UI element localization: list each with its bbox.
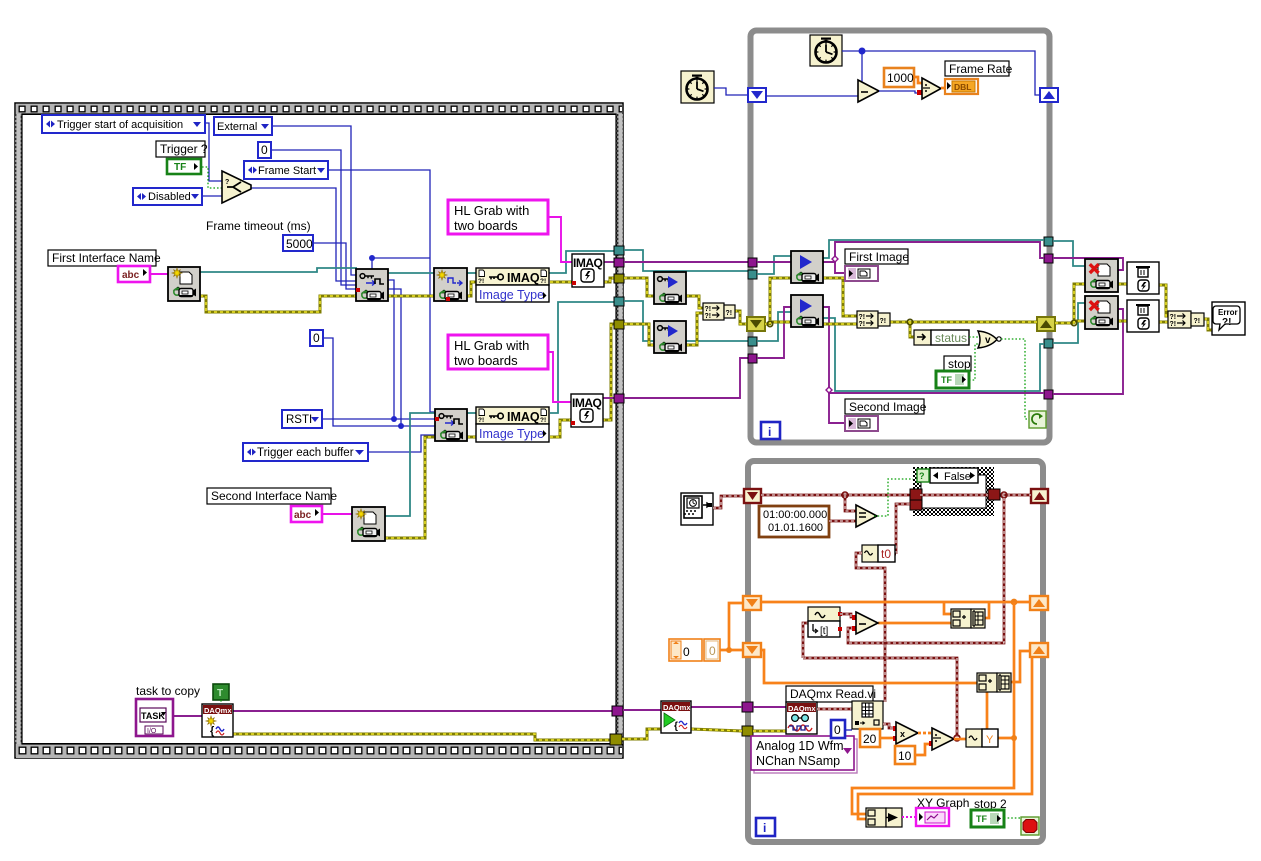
wire stop TF to or [969, 344, 979, 380]
indicator Second Image [845, 416, 878, 431]
select function [222, 171, 251, 203]
shift register orange B right [1030, 643, 1048, 657]
svg-text:Frame Start: Frame Start [258, 165, 316, 177]
IMAQ Init icon 2 [352, 507, 385, 541]
bundle xy node [866, 808, 902, 827]
wire error outside [622, 729, 661, 739]
boolean stop TF [936, 371, 969, 388]
wire error trash2 to merge3 [1159, 321, 1168, 324]
IMAQ Configure Trigger icon [356, 269, 388, 301]
svg-text:Second Image: Second Image [849, 400, 927, 414]
node junction dot [369, 255, 375, 261]
IMAQ read icon 2 [791, 295, 823, 327]
svg-text:i: i [768, 425, 771, 439]
svg-text:Frame timeout (ms): Frame timeout (ms) [206, 219, 311, 233]
DAQmx start task icon [661, 701, 691, 733]
wire purple image2 to icon2 [757, 307, 791, 358]
svg-text:?!: ?! [1170, 321, 1177, 328]
svg-text:20: 20 [863, 732, 877, 746]
svg-text:I/O: I/O [147, 728, 157, 735]
loop2 iteration terminal [756, 818, 775, 836]
svg-text:abc: abc [122, 270, 140, 281]
svg-text:01.01.1600: 01.01.1600 [768, 522, 823, 534]
unbundle t0 node [862, 545, 895, 562]
svg-text:DAQmx: DAQmx [204, 706, 232, 715]
numeric constant 20 [860, 729, 880, 747]
wire timestamp trunk [761, 494, 911, 497]
svg-text:TF: TF [174, 162, 186, 173]
timestamp constant [759, 506, 829, 537]
label Second Interface Name [207, 488, 337, 504]
wire 0 constant to config node [271, 150, 357, 285]
equals function [856, 505, 877, 527]
wire IMAQ session teal row2 [385, 413, 435, 516]
label Frame Rate [945, 61, 1013, 76]
svg-text:IMAQ: IMAQ [507, 410, 540, 424]
loop2 stop terminal [1021, 817, 1039, 835]
wire clock to left shift register [714, 88, 748, 95]
wire orange trunk A [761, 601, 1030, 604]
wire error close2 to trash2 [1118, 320, 1127, 323]
boolean T constant green [213, 684, 229, 704]
tunnel case right [988, 489, 1000, 500]
string constant abc 1 [118, 266, 150, 282]
wire error close1 to trash1 [1118, 283, 1127, 286]
case structure [910, 467, 1000, 516]
shift register orange A right [1030, 596, 1048, 610]
wire RSTI ring to junction [322, 418, 394, 420]
svg-text:i: i [763, 821, 766, 835]
label DAQmx Read.vi [786, 686, 876, 702]
wire divide to DBL indicator [941, 87, 947, 90]
string constant HL Grab with two boards 1 [448, 200, 548, 234]
divide function loop2 [932, 728, 954, 750]
TASK constant [136, 699, 173, 736]
svg-text:?!: ?! [705, 313, 712, 320]
svg-text:DAQmx: DAQmx [788, 704, 816, 713]
tunnel teal 1 [614, 246, 624, 255]
tunnel purple loop1 right bottom [1044, 390, 1053, 399]
wire HL Grab string 2 to IMAQ create 2 [548, 352, 571, 402]
wire bundle to xy graph magenta [902, 816, 916, 818]
svg-text:Error: Error [1218, 308, 1238, 317]
svg-text:abc: abc [294, 510, 312, 521]
wire multiply to divide [918, 732, 932, 735]
wire orange trunk B [761, 650, 977, 683]
wire teal to read icon 1 [757, 256, 791, 274]
IMAQ close icon 1 [1085, 259, 1118, 292]
tunnel teal loop1 right top [1044, 237, 1053, 246]
numeric constant 10 [895, 746, 915, 764]
wire string abc1 to IMAQ init [150, 273, 168, 275]
svg-text:x: x [900, 729, 905, 739]
DAQmx create task icon [202, 704, 233, 737]
wire long orange down to xy bundle [852, 602, 1014, 814]
wire subtract to divide [879, 91, 922, 93]
svg-text:DAQmx: DAQmx [663, 703, 691, 712]
svg-text:?!: ?! [478, 278, 484, 285]
svg-text:?!: ?! [478, 417, 484, 424]
wire waveform y component path [803, 658, 957, 737]
flat sequence structure frame [15, 103, 623, 758]
tunnel purple task [612, 706, 623, 716]
wire DAQmx task purple out [233, 710, 612, 712]
svg-text:TF: TF [941, 375, 952, 385]
svg-text:HL Grab with: HL Grab with [454, 203, 529, 218]
wire read to index array dark red [817, 708, 852, 711]
property node IMAQ Image Type row2 [476, 407, 549, 442]
wire purple task into read [753, 706, 786, 708]
loop1 iteration terminal [761, 422, 780, 439]
wire 0 constant second [322, 338, 401, 426]
get waveform components icon [808, 607, 842, 637]
wire error to start icon A [624, 278, 654, 296]
svg-text:?!: ?! [1170, 314, 1177, 321]
svg-text:?!: ?! [540, 417, 546, 424]
IMAQ start icon B [654, 321, 686, 353]
wire merge3 to error dialog [1204, 319, 1212, 330]
indicator First Image [845, 266, 878, 281]
svg-text:{: { [674, 721, 678, 732]
svg-text:stop: stop [948, 357, 971, 371]
svg-text:Trigger ?: Trigger ? [160, 142, 208, 156]
svg-text:?!: ?! [1222, 317, 1231, 328]
wire error read1 to merge2 [823, 278, 857, 316]
wire Frame Start enum long drop to both config nodes [328, 170, 435, 412]
svg-text:T: T [217, 688, 223, 699]
wire 1000 to divide [914, 77, 922, 83]
svg-text:IMAQ: IMAQ [573, 256, 602, 270]
string constant HL Grab with two boards 2 [448, 335, 548, 369]
index array icon [852, 701, 883, 729]
wire error to start icon B [624, 324, 654, 345]
tunnel purple 2 [614, 394, 624, 403]
wire orange branch to build array 1 [944, 602, 951, 614]
wire 20 to multiply [880, 737, 896, 740]
svg-text:task to copy: task to copy [136, 684, 200, 698]
svg-text:Y: Y [986, 734, 994, 746]
svg-text:0: 0 [261, 143, 268, 157]
wire teal read1 out to right tunnel [823, 240, 1044, 258]
svg-text:Trigger each buffer: Trigger each buffer [257, 447, 354, 459]
IMAQ Init icon [168, 267, 200, 301]
wire select output to config node [250, 188, 357, 281]
wire error into read [753, 730, 786, 733]
wire error trash1 down to merge3 [1159, 285, 1168, 316]
wire stop2 to stop terminal [1004, 818, 1023, 824]
loop condition continue [1029, 411, 1046, 428]
wire t0 up to case tunnel 2 [896, 504, 910, 554]
wire error read2 to merge2 [823, 323, 857, 326]
build waveform Y icon [966, 729, 998, 747]
wire inside case [920, 494, 988, 497]
camera config icon row2 [435, 409, 467, 441]
svg-text:{: { [210, 725, 215, 737]
svg-text:DBL: DBL [954, 82, 971, 92]
svg-text:0: 0 [834, 723, 841, 737]
svg-text:status: status [935, 331, 967, 345]
svg-text:?!: ?! [859, 314, 866, 321]
wire 5000 to config node [313, 243, 357, 289]
while loop 1 (top right) [751, 31, 1050, 443]
shift register orange A left [743, 596, 761, 610]
wire build2 out [1011, 651, 1030, 682]
tunnel purple loop1 left bottom [748, 354, 757, 363]
enum Trigger each buffer [243, 443, 368, 461]
wire error merge2 to right SR [890, 321, 1037, 324]
tunnel teal loop1 left bottom [748, 337, 757, 346]
svg-text:?!: ?! [726, 310, 733, 317]
tunnel olive 1 [614, 274, 624, 283]
svg-text:v: v [985, 335, 991, 346]
enum Frame Start [244, 161, 328, 179]
wire shift reg to subtract [766, 95, 858, 97]
svg-text:1000: 1000 [887, 71, 914, 85]
wire config1 outputs down to config2 [388, 280, 394, 419]
svg-text:t0: t0 [881, 547, 891, 561]
numeric constant 1000 [884, 68, 914, 87]
numeric constant 0 second [310, 330, 323, 346]
tunnel olive 2 [614, 320, 624, 329]
wire error cluster row2 [385, 437, 435, 538]
property node IMAQ Image Type row1 [476, 268, 549, 302]
tunnel case left 1 [910, 489, 922, 500]
wire waveform vertical trunk [856, 553, 885, 702]
tunnel purple loop1 left top [748, 258, 757, 267]
tunnel teal 2 [614, 297, 624, 306]
wire purple image 1 [624, 261, 748, 263]
svg-text:Image Type: Image Type [479, 427, 544, 441]
wire purple task outside [623, 709, 661, 711]
boolean stop 2 TF [971, 810, 1004, 827]
svg-text:Frame Rate: Frame Rate [949, 62, 1013, 76]
tunnel case left 2 [910, 500, 922, 510]
svg-text:[t]: [t] [820, 626, 829, 637]
svg-text:?!: ?! [705, 306, 712, 313]
wire divide to build waveform [954, 738, 966, 741]
wire 0 to index array [845, 729, 852, 731]
wire case out down to subtract region [848, 498, 1004, 643]
IMAQ close icon 2 [1085, 296, 1118, 329]
wire error iconA to merge [686, 296, 703, 308]
wire DAQmx error out [233, 734, 612, 740]
svg-text:two boards: two boards [454, 353, 518, 368]
svg-text:?!: ?! [859, 321, 866, 328]
numeric constant 0 blue loop2 [831, 720, 845, 738]
IMAQ Create icon 1 [572, 254, 604, 287]
svg-text:NChan NSamp: NChan NSamp [756, 754, 840, 768]
merge errors node 1 [703, 303, 735, 320]
purple tunnel loop2 [742, 702, 753, 712]
wire wfm to subtract top [840, 614, 856, 617]
svg-text:IMAQ: IMAQ [507, 271, 540, 285]
svg-text:Analog 1D Wfm: Analog 1D Wfm [756, 739, 844, 753]
svg-text:Second Interface Name: Second Interface Name [211, 489, 337, 503]
wire HL Grab string 1 to IMAQ create [548, 217, 572, 262]
orange array constant 0 [669, 639, 720, 661]
wire datetime to left SR [713, 496, 745, 508]
tunnel olive task [610, 734, 622, 745]
wire waveform Y up [982, 686, 987, 729]
svg-text:HL Grab with: HL Grab with [454, 338, 529, 353]
svg-text:False: False [944, 471, 971, 483]
wire build2 to xy bundle second [858, 657, 1032, 819]
ring External [214, 117, 272, 135]
wire trigger each buffer enum [368, 435, 435, 452]
merge errors node 2 [857, 311, 890, 328]
label Trigger ? [156, 141, 208, 157]
IMAQ start icon A [654, 272, 686, 304]
or gate [978, 331, 1001, 348]
svg-text:Disabled: Disabled [148, 191, 191, 203]
shift register timestamp right [1031, 489, 1048, 503]
wire teal read2 out to right tunnel [823, 318, 1044, 391]
tunnel teal loop1 right bottom [1044, 339, 1053, 348]
enum Disabled [133, 188, 202, 205]
svg-text:10: 10 [898, 749, 912, 763]
svg-text:RSTI: RSTI [286, 414, 312, 426]
wire purple to close2 [1053, 309, 1123, 394]
wire clock tick count [842, 51, 1040, 95]
wire equals to case selector [874, 479, 915, 516]
svg-text:two boards: two boards [454, 218, 518, 233]
shift register left blue [748, 88, 766, 102]
wire teal session 2 [624, 301, 748, 341]
svg-text:0: 0 [709, 644, 716, 658]
tunnel purple loop1 right top [1044, 254, 1053, 263]
build array 1 [951, 609, 985, 628]
label First Image [845, 249, 909, 264]
enum Trigger start of acquisition [42, 115, 205, 133]
wire status to or [969, 336, 978, 338]
wire teal to close1 [1053, 241, 1085, 266]
svg-text:5000: 5000 [286, 237, 313, 251]
wire error cluster row1 [200, 296, 357, 312]
wire or to loop condition [1001, 339, 1029, 419]
wire External ring down to config node [272, 126, 357, 275]
svg-text:?: ? [919, 471, 925, 481]
shift register error right [1037, 317, 1055, 331]
svg-text:First Interface Name: First Interface Name [52, 251, 161, 265]
svg-text:?: ? [225, 179, 229, 186]
wire array const to orange SRs [720, 649, 744, 652]
wire branch to equals [845, 495, 856, 511]
label stop [944, 356, 971, 371]
indicator DBL [945, 79, 978, 94]
subtract function [858, 80, 879, 102]
subtract function loop2 [856, 612, 878, 634]
wire build1 out up to trunk [982, 602, 989, 618]
boolean TF constant Trigger [167, 159, 201, 174]
svg-text:TF: TF [976, 814, 987, 824]
clock inside loop [810, 35, 842, 66]
wire Y icon out joining vertical [996, 737, 1014, 740]
DAQmx read icon [786, 702, 817, 734]
label Second Image [845, 399, 927, 414]
wire string abc2 to IMAQ init2 [321, 513, 352, 515]
indicator XY Graph [916, 808, 949, 826]
shift register right blue [1040, 88, 1058, 102]
wire Disabled enum to select [203, 195, 223, 197]
IMAQ read icon 1 [791, 251, 823, 283]
svg-text:?!: ?! [540, 278, 546, 285]
wire timestamp const to equals [829, 520, 856, 523]
build array 2 [977, 673, 1011, 692]
wire 10 to divide [915, 744, 932, 755]
svg-text:DAQmx Read.vi: DAQmx Read.vi [790, 687, 876, 701]
shift register orange B left [743, 643, 761, 657]
wire TF boolean to select (dotted green) [202, 167, 223, 188]
svg-text:First Image: First Image [849, 250, 909, 264]
wire teal to read icon 2 [757, 312, 791, 341]
svg-text:IMAQ: IMAQ [572, 396, 601, 410]
wire error from left SR [765, 278, 791, 324]
ring RSTI [282, 410, 322, 428]
wire TASK constant to DAQmx create [173, 715, 202, 717]
wire image out purple row1 [604, 261, 616, 263]
wire merged error to loop shift register [734, 311, 748, 324]
wire purple to close1 [1053, 258, 1123, 270]
svg-text:External: External [217, 121, 257, 133]
wire enum trigger-start to select top [205, 123, 223, 181]
svg-text:?!: ?! [880, 318, 887, 325]
tunnel purple 1 [614, 258, 624, 267]
IMAQ Configure List icon [434, 268, 467, 301]
wire purple image1 to indicator and tunnel [757, 242, 1044, 262]
dispose task icon 1 [1127, 262, 1159, 294]
svg-text:Image Type: Image Type [479, 288, 544, 302]
polymorphic selector Analog 1D Wfm [751, 736, 857, 773]
wire subtract out to build array 1 [878, 622, 951, 625]
shift register error left [747, 317, 765, 331]
multiply function [896, 722, 918, 744]
label First Interface Name [48, 250, 161, 266]
wire purple image 2 [624, 358, 748, 398]
svg-text:01:00:00.000: 01:00:00.000 [763, 509, 827, 521]
get date time icon [681, 493, 713, 525]
svg-text:0: 0 [683, 645, 690, 659]
merge errors node 3 [1168, 311, 1204, 328]
wire teal to close2 [1053, 303, 1085, 343]
unbundle status node [914, 330, 969, 345]
svg-text:0: 0 [313, 331, 320, 345]
IMAQ Create icon 2 [571, 394, 603, 427]
divide function [922, 78, 941, 99]
numeric constant 5000 [283, 235, 313, 251]
wire image out purple row2 [602, 397, 616, 399]
shift register timestamp left [744, 489, 761, 503]
simple error handler dialog icon [1212, 302, 1245, 335]
tunnel teal loop1 left top [748, 270, 757, 279]
olive tunnel loop2 [742, 726, 753, 736]
wire error out of loop to close nodes [1055, 284, 1085, 323]
while loop 2 (bottom right) [748, 461, 1043, 842]
clock outside loop [681, 71, 714, 103]
string constant abc 2 [291, 506, 322, 522]
numeric constant 0 [258, 142, 271, 158]
dispose task icon 2 [1127, 300, 1159, 332]
wire IMAQ session teal row1 [200, 268, 357, 272]
wire error iconB to merge [686, 313, 703, 345]
svg-text:?!: ?! [1194, 318, 1201, 325]
wire teal session 1 [624, 250, 748, 271]
wire index to multiply [883, 724, 896, 728]
svg-text:Trigger start of acquisition: Trigger start of acquisition [57, 119, 183, 131]
wire purple image2 out [823, 307, 1044, 393]
